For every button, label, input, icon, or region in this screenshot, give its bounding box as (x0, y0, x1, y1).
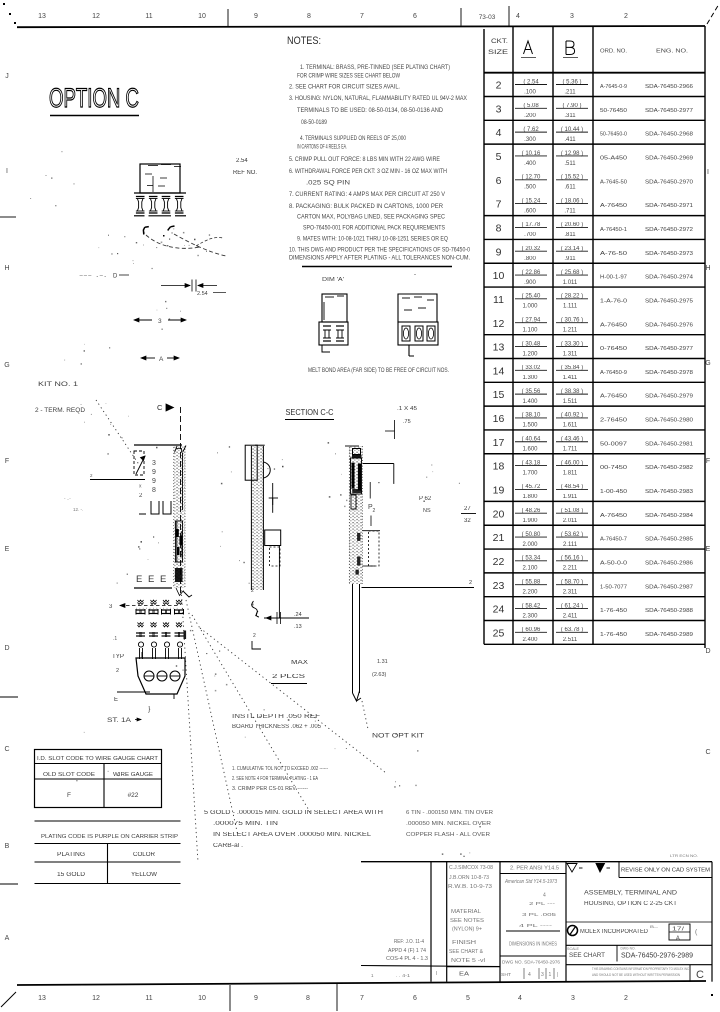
svg-text:4: 4 (251, 602, 254, 608)
svg-text:NOT OPT KIT: NOT OPT KIT (372, 733, 424, 740)
svg-text:12: 12 (92, 995, 100, 1002)
svg-text:TERMINALS TO BE USED: 08-50-01: TERMINALS TO BE USED: 08-50-0134, 08-50-… (297, 107, 443, 114)
svg-text:F: F (67, 792, 71, 799)
svg-text:. . 4-1: . . 4-1 (396, 973, 411, 978)
svg-text:DIMENSIONS IN INCHES: DIMENSIONS IN INCHES (509, 942, 558, 948)
svg-text:D: D (705, 648, 710, 655)
svg-text:4: 4 (543, 893, 546, 899)
svg-text:.711: .711 (564, 208, 576, 214)
svg-text:12. -.: 12. -. (73, 507, 83, 512)
svg-text:1-50-7077: 1-50-7077 (600, 584, 627, 590)
svg-text:G: G (4, 362, 9, 369)
svg-text:SCALE: SCALE (567, 947, 579, 951)
svg-text:2.54: 2.54 (197, 291, 208, 297)
svg-text:5 GOLD - .000015 MIN. GOLD IN: 5 GOLD - .000015 MIN. GOLD IN SELECT ARE… (204, 810, 383, 816)
svg-text:2: 2 (624, 13, 628, 20)
svg-text:27: 27 (464, 506, 471, 512)
svg-text:CKT.: CKT. (491, 38, 508, 45)
svg-text:SDA-76450-2983: SDA-76450-2983 (645, 489, 693, 495)
svg-text:1.511: 1.511 (563, 399, 578, 405)
svg-text:A-76450: A-76450 (600, 203, 627, 209)
svg-text:SDA-76450-2982: SDA-76450-2982 (645, 465, 693, 471)
svg-text:1.300: 1.300 (522, 375, 538, 381)
svg-text:3: 3 (158, 318, 162, 325)
svg-text:.1 X 45: .1 X 45 (397, 406, 417, 412)
svg-text:32: 32 (464, 518, 471, 524)
svg-text:1.911: 1.911 (563, 494, 578, 500)
svg-text:CARTON MAX, POLYBAG LINED, SEE: CARTON MAX, POLYBAG LINED, SEE PACKAGING… (297, 214, 445, 221)
svg-text:1.000: 1.000 (522, 304, 538, 310)
svg-text:A: A (5, 935, 10, 942)
svg-text:2: 2 (373, 508, 376, 514)
svg-text:24: 24 (493, 604, 505, 616)
svg-text:.400: .400 (524, 161, 536, 167)
svg-text:2 PL ---: 2 PL --- (529, 901, 556, 906)
svg-text:9. MATES WITH: 10-08-1021 THRU: 9. MATES WITH: 10-08-1021 THRU 10-08-125… (297, 236, 448, 243)
svg-text:2.311: 2.311 (563, 589, 578, 595)
svg-text:1.400: 1.400 (522, 399, 538, 405)
svg-text:1.311: 1.311 (563, 351, 578, 357)
svg-text:1. CUMULATIVE TOL NOT TO EXCEE: 1. CUMULATIVE TOL NOT TO EXCEED .002 ---… (232, 766, 328, 772)
svg-text:.600: .600 (524, 208, 536, 214)
svg-text:25: 25 (493, 627, 505, 639)
svg-text:3. CRIMP PER CS-01 REV ------: 3. CRIMP PER CS-01 REV ------ (232, 786, 308, 792)
svg-text:REF: J.O. 11-4: REF: J.O. 11-4 (394, 939, 424, 945)
svg-text:NS: NS (423, 508, 431, 514)
svg-text:15: 15 (493, 389, 505, 401)
svg-text:9: 9 (152, 469, 156, 476)
svg-text:3 PL .005: 3 PL .005 (522, 912, 557, 917)
svg-text:MOLEX INCORPORATED: MOLEX INCORPORATED (580, 929, 649, 935)
svg-text:2. SEE CHART FOR CIRCUIT SIZES: 2. SEE CHART FOR CIRCUIT SIZES AVAIL. (289, 84, 400, 91)
svg-text:J: J (5, 73, 9, 80)
svg-text:6: 6 (413, 995, 417, 1002)
svg-text:E: E (5, 546, 10, 553)
svg-text:.611: .611 (564, 185, 576, 191)
svg-text:KIT NO. 1: KIT NO. 1 (38, 381, 79, 388)
svg-text:'': '' (414, 274, 416, 280)
svg-text:12: 12 (92, 13, 100, 20)
svg-text:16: 16 (493, 413, 505, 425)
svg-text:1: 1 (549, 972, 552, 978)
svg-text:7: 7 (360, 13, 364, 20)
svg-text:1-00-450: 1-00-450 (600, 489, 627, 495)
svg-text:19: 19 (493, 484, 505, 496)
svg-text:A-76450-7: A-76450-7 (600, 537, 627, 543)
svg-text:IN CARTONS OF 4 REELS EA.: IN CARTONS OF 4 REELS EA. (297, 144, 347, 151)
svg-text:A-76450: A-76450 (600, 322, 627, 328)
svg-text:SDA-76450-2987: SDA-76450-2987 (645, 584, 693, 590)
svg-text:22: 22 (493, 556, 505, 568)
svg-text:2 - TERM. REQD: 2 - TERM. REQD (35, 407, 85, 414)
svg-text:1.111: 1.111 (563, 304, 578, 310)
svg-text:17: 17 (493, 437, 505, 449)
svg-text:SEE NOTES: SEE NOTES (450, 918, 485, 924)
svg-text:2.54: 2.54 (236, 158, 248, 164)
svg-text:REF NO.: REF NO. (233, 170, 257, 176)
svg-text:4: 4 (496, 127, 502, 139)
svg-text:1.011: 1.011 (563, 280, 578, 286)
svg-text:73-03: 73-03 (479, 14, 496, 21)
svg-text:A-7645-0-9: A-7645-0-9 (600, 84, 627, 90)
svg-text:9: 9 (254, 13, 258, 20)
svg-text:6. WITHDRAWAL FORCE PER CKT: 3: 6. WITHDRAWAL FORCE PER CKT: 3 OZ MIN - … (289, 168, 447, 175)
svg-text:8: 8 (306, 995, 310, 1002)
svg-text:SPO-76450-001 FOR ADDITIONAL P: SPO-76450-001 FOR ADDITIONAL PACK REQUIR… (303, 225, 445, 232)
svg-text:21: 21 (493, 532, 505, 544)
svg-text:2.400: 2.400 (522, 637, 538, 643)
svg-text:MATERIAL: MATERIAL (451, 909, 481, 915)
svg-text:6 TIN - .000150 MIN. TIN OVER: 6 TIN - .000150 MIN. TIN OVER (406, 810, 493, 816)
svg-text:.411: .411 (564, 137, 576, 143)
svg-text:.500: .500 (524, 185, 536, 191)
svg-text:2 PLCS: 2 PLCS (272, 674, 305, 680)
svg-text:P 62: P 62 (419, 496, 432, 502)
svg-text:9: 9 (152, 478, 156, 485)
svg-text:10: 10 (198, 13, 206, 20)
svg-text:(NYLON) 9+: (NYLON) 9+ (452, 927, 482, 933)
svg-text:.811: .811 (564, 232, 576, 238)
svg-text:SDA-76450-2989: SDA-76450-2989 (645, 632, 693, 638)
svg-text:H: H (4, 265, 9, 272)
svg-text:3: 3 (541, 972, 544, 978)
svg-text:SDA-76450-2969: SDA-76450-2969 (645, 156, 693, 162)
svg-text:SDA-76450-2988: SDA-76450-2988 (645, 608, 693, 614)
svg-text:C.J.SIMCOX 73-08: C.J.SIMCOX 73-08 (449, 865, 493, 871)
svg-text:8. PACKAGING: BULK PACKED IN C: 8. PACKAGING: BULK PACKED IN CARTONS, 10… (289, 203, 444, 210)
svg-text:D: D (113, 274, 118, 280)
svg-text:2. SEE NOTE 4 FOR TERMINAL PLA: 2. SEE NOTE 4 FOR TERMINAL PLATING - 1 E… (232, 776, 318, 782)
svg-text:.025 SQ PIN: .025 SQ PIN (306, 180, 350, 187)
svg-text:C: C (705, 749, 710, 756)
svg-text:3: 3 (571, 995, 575, 1002)
svg-text:A-76450: A-76450 (600, 394, 627, 400)
svg-text:COPPER FLASH - ALL OVER: COPPER FLASH - ALL OVER (406, 832, 490, 838)
svg-text:SDA-76450-2972: SDA-76450-2972 (645, 227, 693, 233)
svg-text:SDA-76450-2968: SDA-76450-2968 (645, 132, 693, 138)
svg-text:A-7645-50: A-7645-50 (600, 179, 627, 185)
svg-text:6: 6 (413, 13, 417, 20)
svg-text:.300: .300 (524, 137, 536, 143)
svg-text:.700: .700 (524, 232, 536, 238)
svg-text:1. TERMINAL: BRASS, PRE-TINNE: 1. TERMINAL: BRASS, PRE-TINNED (SEE PLAT… (300, 64, 450, 71)
svg-text:FINISH: FINISH (452, 940, 477, 946)
svg-text:.911: .911 (564, 256, 576, 262)
svg-text:SDA-76450-2975: SDA-76450-2975 (645, 298, 693, 304)
svg-text:1.900: 1.900 (522, 518, 538, 524)
svg-text:2.511: 2.511 (563, 637, 578, 643)
svg-text:PLATING CODE IS PURPLE ON CARR: PLATING CODE IS PURPLE ON CARRIER STRIP (41, 834, 178, 840)
svg-text:1.411: 1.411 (563, 375, 578, 381)
svg-text:A-76450-9: A-76450-9 (600, 370, 627, 376)
svg-text:2.300: 2.300 (522, 613, 538, 619)
svg-text:12: 12 (493, 318, 505, 330)
svg-text:0-76450: 0-76450 (600, 346, 627, 352)
svg-text:1.800: 1.800 (522, 494, 538, 500)
svg-text:SEE CHART: SEE CHART (569, 952, 605, 959)
svg-text:EA: EA (459, 972, 469, 978)
svg-text:.200: .200 (524, 113, 536, 119)
svg-text:17/: 17/ (672, 927, 685, 933)
svg-text:OPTION C: OPTION C (49, 83, 139, 113)
svg-text:7: 7 (360, 995, 364, 1002)
svg-text:.75: .75 (403, 419, 411, 425)
svg-text:TYP: TYP (112, 654, 124, 660)
svg-text:2-76450: 2-76450 (600, 418, 627, 424)
svg-text:R.W.B. 10-9-73: R.W.B. 10-9-73 (448, 884, 492, 890)
svg-text:2. PER ANSI Y14.5: 2. PER ANSI Y14.5 (510, 866, 559, 872)
svg-text:SDA-76450-2977: SDA-76450-2977 (645, 108, 693, 114)
svg-text:YELLOW: YELLOW (131, 872, 157, 878)
svg-text:2.200: 2.200 (522, 589, 538, 595)
svg-text:10: 10 (198, 995, 206, 1002)
svg-text:.100: .100 (524, 89, 536, 95)
svg-text:A-76450: A-76450 (600, 513, 627, 519)
svg-text:13: 13 (38, 995, 46, 1002)
svg-text:1.500: 1.500 (522, 423, 538, 429)
svg-text:.000075 MIN. TIN: .000075 MIN. TIN (213, 821, 278, 827)
svg-text:BOARD THICKNESS .062 + .005: BOARD THICKNESS .062 + .005 (232, 724, 322, 730)
svg-text:10. THIS DWG AND PRODUCT PER T: 10. THIS DWG AND PRODUCT PER THE SPECIFI… (289, 247, 470, 254)
svg-text:1.211: 1.211 (563, 327, 578, 333)
svg-text:1.100: 1.100 (522, 327, 538, 333)
svg-text:SDA-76450-2974: SDA-76450-2974 (645, 275, 693, 281)
svg-text:2.211: 2.211 (563, 566, 578, 572)
svg-text:C: C (696, 969, 704, 981)
svg-text:ST. 1A: ST. 1A (107, 717, 132, 724)
svg-text:2.100: 2.100 (522, 566, 538, 572)
svg-text:11: 11 (145, 995, 152, 1002)
svg-text:C: C (157, 403, 163, 412)
svg-text:--- .-.: --- .-. (79, 273, 108, 279)
svg-text:LTR ECN NO.: LTR ECN NO. (670, 853, 698, 858)
svg-text:7: 7 (496, 199, 502, 211)
svg-text:3: 3 (570, 13, 574, 20)
svg-text:23: 23 (493, 580, 505, 592)
svg-text:13: 13 (38, 13, 46, 20)
svg-text:IN SELECT AREA OVER .000050 MI: IN SELECT AREA OVER .000050 MIN. NICKEL (213, 832, 372, 838)
svg-text:1.700: 1.700 (522, 470, 538, 476)
svg-text:SEE CHART &: SEE CHART & (449, 949, 484, 955)
svg-text:ASSEMBLY, TERMINAL AND: ASSEMBLY, TERMINAL AND (584, 891, 678, 897)
svg-text:SDA-76450-2981: SDA-76450-2981 (645, 441, 693, 447)
svg-text:SDA-76450-2986: SDA-76450-2986 (645, 560, 693, 566)
svg-text:.1: .1 (113, 636, 117, 642)
svg-text:00-7450: 00-7450 (600, 465, 627, 471)
svg-text:FOR CRIMP WIRE SIZES SEE CHART: FOR CRIMP WIRE SIZES SEE CHART BELOW (297, 73, 400, 80)
svg-text:REVISE ONLY ON CAD SYSTEM: REVISE ONLY ON CAD SYSTEM (621, 868, 710, 874)
svg-text:DWG NO. SDA-76450-2976: DWG NO. SDA-76450-2976 (502, 960, 561, 965)
svg-text:OLD SLOT CODE: OLD SLOT CODE (43, 772, 95, 778)
svg-text:8: 8 (496, 223, 502, 235)
svg-text:05-A450: 05-A450 (600, 156, 627, 162)
svg-text:2: 2 (251, 588, 254, 594)
svg-text:MAX: MAX (291, 660, 308, 666)
svg-text:E: E (136, 574, 142, 585)
svg-text:SIZE: SIZE (488, 49, 508, 56)
svg-text:2.011: 2.011 (563, 518, 578, 524)
svg-text:1-76-450: 1-76-450 (600, 632, 627, 638)
svg-text:F: F (5, 458, 9, 465)
svg-text:7. CURRENT RATING: 4 AMPS MAX: 7. CURRENT RATING: 4 AMPS MAX PER CIRCUI… (289, 191, 446, 198)
svg-text:3: 3 (496, 103, 502, 115)
svg-text:1-A-76-0: 1-A-76-0 (600, 298, 627, 304)
svg-text:.13: .13 (294, 624, 302, 630)
svg-text:E: E (160, 574, 166, 585)
svg-text:G: G (705, 360, 710, 367)
svg-text:A-50-0-0: A-50-0-0 (600, 560, 627, 566)
svg-text:THIS DRAWING CONTAINS INFORMAT: THIS DRAWING CONTAINS INFORMATION PROPRI… (592, 966, 689, 971)
svg-text:1.811: 1.811 (563, 470, 578, 476)
svg-text:ENG. NO.: ENG. NO. (656, 49, 688, 55)
svg-text:SDA-76450-2973: SDA-76450-2973 (645, 251, 693, 257)
svg-text:A-76-50: A-76-50 (600, 251, 627, 257)
svg-text:50-76450: 50-76450 (600, 108, 627, 114)
svg-text:8: 8 (307, 13, 311, 20)
svg-text:2: 2 (469, 580, 472, 586)
svg-text:SHT: SHT (501, 972, 511, 977)
svg-text:18: 18 (493, 461, 505, 473)
svg-text:A: A (159, 356, 164, 363)
svg-text:A-76450-1: A-76450-1 (600, 227, 627, 233)
svg-text:COS-4 PL 4 - 1.3: COS-4 PL 4 - 1.3 (386, 956, 428, 962)
svg-text:3: 3 (152, 460, 156, 467)
svg-text:I.D. SLOT CODE TO WIRE GAUGE C: I.D. SLOT CODE TO WIRE GAUGE CHART (37, 756, 158, 762)
svg-text:(2.63): (2.63) (372, 672, 387, 678)
svg-text:SDA-76450-2971: SDA-76450-2971 (645, 203, 693, 209)
svg-text:4: 4 (528, 972, 531, 978)
svg-text:1.200: 1.200 (522, 351, 538, 357)
svg-text:H-00-1-97: H-00-1-97 (600, 275, 627, 281)
svg-text:SDA-76450-2979: SDA-76450-2979 (645, 394, 693, 400)
svg-text:#22: #22 (128, 792, 139, 799)
svg-text:SDA-76450-2980: SDA-76450-2980 (645, 418, 693, 424)
svg-text:E: E (148, 574, 154, 585)
svg-text:NOTES:: NOTES: (287, 35, 321, 47)
svg-text:C: C (4, 746, 9, 753)
svg-text:.24: .24 (294, 612, 302, 618)
svg-text:B--: B-- (650, 924, 659, 929)
svg-text:.900: .900 (524, 280, 536, 286)
svg-text:SDA-76450-2977: SDA-76450-2977 (645, 346, 693, 352)
svg-text:AND SHOULD NOT BE USED WITHOUT: AND SHOULD NOT BE USED WITHOUT WRITTEN P… (592, 972, 680, 977)
svg-text:1.611: 1.611 (563, 423, 578, 429)
svg-text:American Std Y14.5-1973: American Std Y14.5-1973 (504, 879, 557, 885)
svg-text:14: 14 (493, 365, 505, 377)
svg-text:I: I (707, 169, 709, 176)
svg-text:1.711: 1.711 (563, 447, 578, 453)
svg-text:E: E (706, 546, 711, 553)
svg-text:APPD 4 (F) 1 74: APPD 4 (F) 1 74 (388, 948, 426, 954)
svg-text:2: 2 (116, 668, 119, 674)
svg-text:.511: .511 (564, 161, 576, 167)
svg-text:F: F (706, 458, 710, 465)
svg-text:SDA-76450-2970: SDA-76450-2970 (645, 179, 693, 185)
svg-text:SDA-76450-2984: SDA-76450-2984 (645, 513, 693, 519)
svg-text:2: 2 (496, 80, 502, 92)
svg-text:11: 11 (493, 294, 504, 306)
svg-text:.211: .211 (564, 89, 576, 95)
svg-text:SDA-76450-2966: SDA-76450-2966 (645, 84, 693, 90)
svg-text:4: 4 (516, 13, 520, 20)
svg-text:DIMENSIONS APPLY AFTER PLATING: DIMENSIONS APPLY AFTER PLATING - ALL TOL… (289, 255, 470, 262)
svg-text:2: 2 (624, 995, 628, 1002)
svg-text:1.31: 1.31 (377, 659, 388, 665)
svg-text:ORD. NO.: ORD. NO. (600, 49, 627, 55)
svg-text:MELT BOND AREA (FAR SIDE) TO B: MELT BOND AREA (FAR SIDE) TO BE FREE OF … (308, 367, 449, 374)
svg-text:.000050 MIN. NICKEL OVER: .000050 MIN. NICKEL OVER (406, 821, 491, 827)
svg-text:4. TERMINALS SUPPLIED ON REELS: 4. TERMINALS SUPPLIED ON REELS OF 25,000 (300, 135, 406, 142)
svg-text:COLOR: COLOR (133, 852, 156, 858)
svg-text:9: 9 (254, 995, 258, 1002)
svg-text:1-76-450: 1-76-450 (600, 608, 627, 614)
svg-text:HOUSING, OPTION C 2-25 CKT: HOUSING, OPTION C 2-25 CKT (584, 901, 677, 907)
svg-text:J.B.ORN 10-8-73: J.B.ORN 10-8-73 (449, 875, 489, 881)
svg-text:H: H (705, 265, 710, 272)
svg-text:B: B (5, 843, 10, 850)
svg-text:SDA-76450-2976: SDA-76450-2976 (645, 322, 693, 328)
svg-text:10: 10 (493, 270, 505, 282)
svg-text:2.111: 2.111 (563, 542, 578, 548)
svg-text:11: 11 (145, 13, 152, 20)
svg-text:I: I (6, 168, 8, 175)
svg-text:6: 6 (496, 175, 502, 187)
svg-text:4: 4 (518, 995, 522, 1002)
svg-text:50-76450-0: 50-76450-0 (600, 132, 627, 138)
svg-text:D: D (4, 645, 9, 652)
svg-text:I: I (436, 971, 437, 977)
svg-text:5. CRIMP PULL OUT FORCE: 8 LBS: 5. CRIMP PULL OUT FORCE: 8 LBS MIN WITH … (289, 156, 440, 163)
svg-text:2.411: 2.411 (563, 613, 578, 619)
svg-text:20: 20 (493, 508, 505, 520)
svg-text:2: 2 (253, 633, 256, 639)
svg-text:5: 5 (496, 151, 502, 163)
svg-text:SDA-76450-2978: SDA-76450-2978 (645, 370, 693, 376)
svg-text:4 PL ----: 4 PL ---- (519, 923, 553, 928)
svg-text:3. HOUSING: NYLON, NATURAL, FL: 3. HOUSING: NYLON, NATURAL, FLAMMABILITY… (289, 95, 467, 102)
svg-text:1.600: 1.600 (522, 447, 538, 453)
svg-text:SDA-76450-2985: SDA-76450-2985 (645, 537, 693, 543)
svg-text:2.000: 2.000 (522, 542, 538, 548)
svg-text:- ..-: - ..- (64, 496, 71, 501)
svg-text:08-50-0189: 08-50-0189 (301, 119, 327, 126)
svg-text:8: 8 (152, 487, 156, 494)
svg-text:.311: .311 (564, 113, 576, 119)
svg-text:CARB-al .: CARB-al . (213, 843, 243, 849)
svg-text:SECTION C-C: SECTION C-C (286, 408, 334, 417)
svg-text:PLATING: PLATING (57, 852, 85, 858)
svg-text:A: A (676, 936, 680, 942)
svg-text:.800: .800 (524, 256, 536, 262)
svg-text:NOTE 5 -vl: NOTE 5 -vl (451, 958, 485, 964)
svg-text:DIM 'A': DIM 'A' (322, 277, 344, 283)
svg-text:9: 9 (496, 246, 502, 258)
svg-text:E: E (114, 697, 118, 703)
svg-text:15 GOLD: 15 GOLD (57, 872, 86, 878)
svg-text:5: 5 (466, 995, 470, 1002)
svg-text:|: | (557, 972, 558, 978)
svg-text:13: 13 (493, 342, 505, 354)
svg-text:SDA-76450-2976-2989: SDA-76450-2976-2989 (621, 951, 693, 960)
svg-text:50-0097: 50-0097 (600, 441, 627, 447)
